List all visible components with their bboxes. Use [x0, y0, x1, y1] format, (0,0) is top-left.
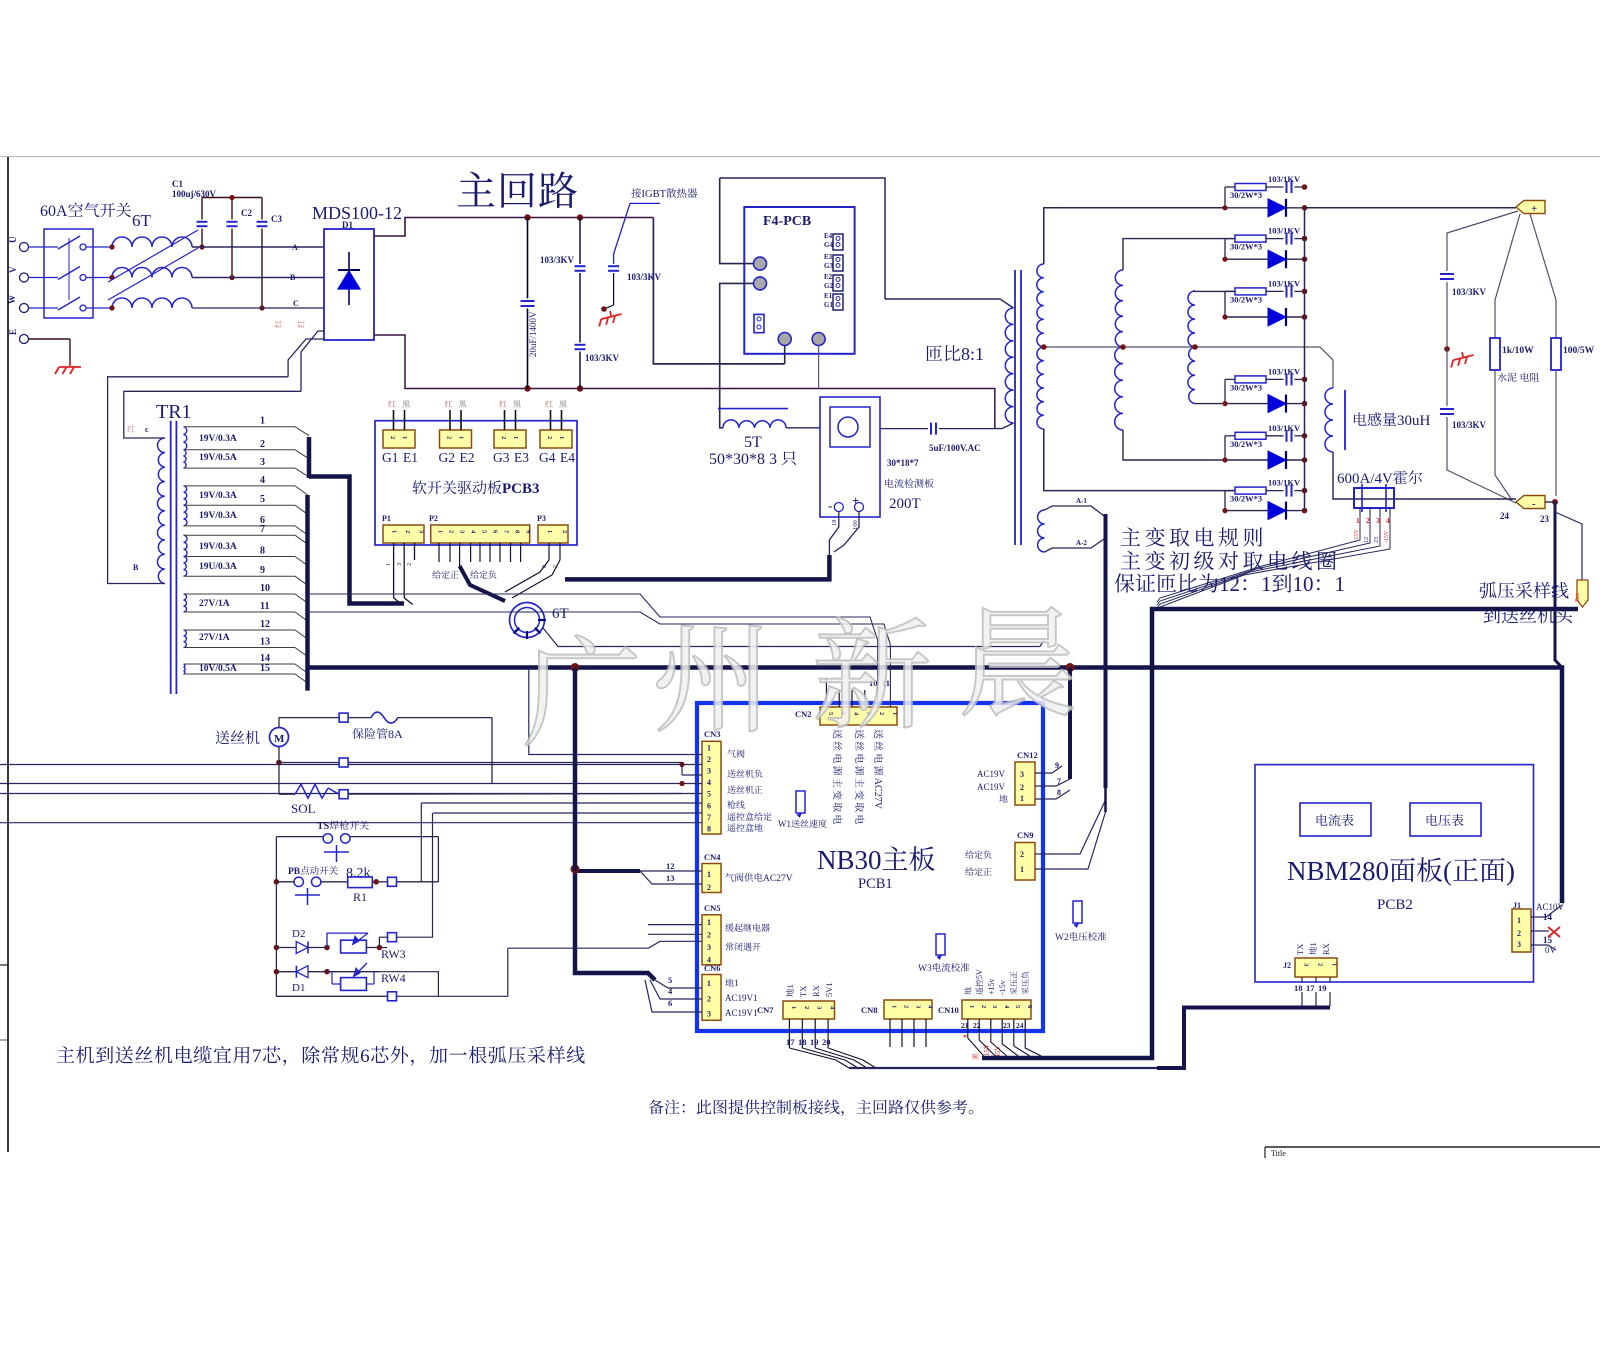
svg-text:27V/1A: 27V/1A — [199, 599, 230, 609]
gate connector G1 E1 — [383, 430, 415, 448]
svg-text:2: 2 — [878, 712, 885, 715]
svg-text:2: 2 — [1366, 516, 1370, 525]
breaker pole V — [29, 277, 59, 279]
P3 pin leads — [548, 543, 550, 560]
svg-text:19U/0.3A: 19U/0.3A — [199, 562, 237, 572]
svg-text:RX: RX — [811, 985, 821, 997]
svg-text:103/1KV: 103/1KV — [1268, 226, 1301, 236]
rectifier diode — [1225, 459, 1305, 461]
svg-text:103/3KV: 103/3KV — [627, 272, 662, 282]
snubber ground — [596, 308, 623, 326]
svg-text:1: 1 — [1020, 794, 1024, 803]
svg-text:+: + — [1531, 203, 1537, 215]
svg-text:5: 5 — [260, 494, 265, 505]
svg-text:2: 2 — [707, 883, 711, 892]
svg-text:6: 6 — [668, 998, 672, 1008]
svg-text:3: 3 — [707, 767, 711, 776]
svg-text:D1: D1 — [292, 982, 305, 994]
svg-text:1k/10W: 1k/10W — [1502, 346, 1534, 356]
svg-text:2: 2 — [1517, 929, 1521, 938]
svg-text:5: 5 — [668, 975, 672, 985]
TR1 primary feed wire 1 — [301, 331, 324, 391]
svg-text:U: U — [8, 236, 18, 243]
svg-text:100/5W: 100/5W — [1563, 346, 1595, 356]
svg-text:2: 2 — [707, 930, 711, 939]
svg-text:2: 2 — [707, 994, 711, 1003]
label 60A空气开关 — [40, 202, 131, 220]
svg-text:10: 10 — [1293, 572, 1314, 596]
svg-text:MDS100-12: MDS100-12 — [312, 203, 402, 223]
snubber capacitor 103/1KV — [1286, 233, 1288, 245]
label 6T toroid — [552, 606, 569, 622]
svg-text:Ret: Ret — [1574, 593, 1581, 602]
connector J1 — [1513, 901, 1521, 910]
wire winding A top to rectifier row1 — [1044, 208, 1225, 264]
snubber stub — [1224, 239, 1226, 260]
svg-text:F4-PCB: F4-PCB — [763, 214, 811, 229]
fan wire to filter caps — [1447, 211, 1518, 271]
CN3 wires — [529, 668, 702, 755]
F4 pin pair E2 G2 — [824, 273, 833, 281]
terminal V — [20, 273, 29, 282]
CN3 pin labels — [727, 749, 744, 757]
connector CN2 — [795, 709, 812, 719]
hall signal bundle — [1157, 517, 1360, 602]
label 电流检测板 — [885, 479, 933, 488]
connector P1 — [382, 514, 391, 523]
svg-text:M: M — [274, 733, 285, 745]
potentiometer W1 — [796, 791, 805, 813]
CN7 rotated labels — [785, 984, 795, 996]
connector CN7 — [757, 1005, 774, 1015]
svg-text:E: E — [8, 329, 18, 335]
junction dot CN4/CN6 feed — [571, 865, 580, 874]
snubber inductor 5T — [718, 408, 788, 410]
svg-text:19V/0.3A: 19V/0.3A — [199, 434, 237, 444]
breaker QF box — [44, 229, 93, 318]
wire winding B bottom to row5 — [1123, 430, 1225, 460]
svg-text:PCB1: PCB1 — [858, 876, 893, 892]
svg-text:7: 7 — [707, 813, 711, 822]
label SOL — [291, 801, 316, 816]
svg-text:13: 13 — [260, 637, 270, 648]
svg-text:15: 15 — [260, 663, 270, 674]
svg-text:11: 11 — [260, 601, 269, 612]
label 保险管8A — [352, 727, 403, 741]
svg-text:1: 1 — [512, 436, 519, 439]
svg-text:-: - — [828, 498, 832, 513]
secondary winding B — [1115, 270, 1123, 347]
TR1 primary feed wire 2 — [288, 339, 324, 377]
pickup winding A-1/A-2 — [1038, 510, 1045, 552]
CN10 rotated net labels — [964, 987, 971, 994]
CN5 pin labels — [725, 923, 769, 931]
potentiometer RW3 — [324, 945, 330, 951]
svg-text:CN7: CN7 — [757, 1005, 774, 1015]
svg-text:1: 1 — [546, 530, 553, 533]
J2 rotated labels — [1295, 944, 1305, 955]
rectifier diode — [1225, 207, 1305, 209]
svg-text:3: 3 — [1376, 516, 1380, 525]
wire W row to bridge C — [192, 307, 324, 309]
svg-text:C2: C2 — [241, 208, 252, 218]
NB30 board box — [697, 703, 1043, 1031]
svg-text:19V/0.3A: 19V/0.3A — [199, 511, 237, 521]
TR1 core — [170, 421, 172, 694]
svg-text:W2: W2 — [1055, 933, 1069, 943]
secondary winding A — [1037, 264, 1044, 347]
snubber capacitor 103/1KV — [1286, 485, 1288, 497]
svg-text:8.2k: 8.2k — [346, 866, 371, 881]
svg-text:IGBT: IGBT — [642, 189, 667, 200]
label W1送丝速度 — [778, 819, 827, 829]
hall sensor 600A/4V — [1337, 470, 1422, 487]
svg-text:8: 8 — [707, 825, 711, 834]
label 30*18*7 — [887, 458, 919, 468]
svg-text:(: ( — [1443, 856, 1452, 886]
svg-text:19V/0.3A: 19V/0.3A — [199, 491, 237, 501]
svg-text:NBM280: NBM280 — [1287, 856, 1389, 886]
potentiometer W2 — [1073, 901, 1082, 923]
thick wire 200T down to mid bus — [565, 555, 829, 579]
label 给定正 — [432, 570, 458, 578]
svg-text:E4: E4 — [560, 450, 575, 465]
svg-text:6T: 6T — [552, 606, 569, 622]
capacitor 5uF/100V.AC — [880, 428, 928, 430]
note 备注 — [649, 1100, 974, 1117]
svg-text:E4: E4 — [824, 232, 833, 240]
svg-text:19: 19 — [810, 1037, 819, 1047]
label F4-PCB — [763, 214, 811, 229]
cap top common wire — [202, 197, 262, 199]
label W2电压校准 — [1055, 932, 1106, 943]
svg-text:P3: P3 — [537, 514, 546, 523]
svg-text:6: 6 — [707, 801, 711, 810]
svg-text:18: 18 — [1294, 983, 1303, 993]
CN10 numbers and labels — [961, 1021, 969, 1030]
bus dot A — [571, 663, 580, 672]
snubber capacitor 103/1KV — [1286, 285, 1288, 297]
snubber stub — [1224, 291, 1226, 317]
positive terminal tag — [1516, 201, 1545, 214]
svg-text:W1: W1 — [778, 819, 791, 829]
svg-text:C3: C3 — [271, 214, 282, 224]
current sensor 200T box — [820, 397, 880, 517]
svg-text:9: 9 — [260, 565, 265, 576]
svg-text:13: 13 — [666, 873, 675, 883]
svg-text:G4: G4 — [824, 241, 833, 249]
TR1 primary winding — [157, 438, 164, 584]
svg-text:AC19V1: AC19V1 — [725, 1008, 758, 1018]
CN10 pin leads — [967, 1019, 969, 1032]
wire RW3 to CN3 — [379, 937, 387, 947]
svg-text:B: B — [290, 273, 296, 282]
CN12 wires 9 7 8 — [1035, 766, 1062, 773]
svg-text:G1: G1 — [824, 301, 833, 309]
svg-text:17: 17 — [1306, 983, 1315, 993]
svg-text:E1: E1 — [403, 450, 418, 465]
svg-text:G3: G3 — [824, 262, 833, 270]
svg-text:30*18*7: 30*18*7 — [887, 458, 919, 468]
diode D2 — [292, 928, 305, 940]
svg-text:+: + — [852, 493, 859, 508]
label 接IGBT散热器 — [631, 188, 697, 200]
red wire labels 红红 at bridge input — [274, 320, 281, 327]
label PCB2 — [1377, 897, 1413, 913]
svg-text:5T: 5T — [744, 434, 762, 451]
capacitor 20uF/1400V — [521, 300, 535, 302]
bus junction dots — [524, 214, 530, 220]
page left border — [7, 157, 9, 1152]
snubber resistor 30/2W*3 — [1225, 186, 1235, 188]
thick wire P2 to 6T toroid — [460, 566, 505, 601]
svg-text:W: W — [7, 295, 17, 304]
svg-text:5uF/100V.AC: 5uF/100V.AC — [929, 443, 981, 453]
J2 pin leads — [1301, 977, 1303, 982]
label 23 — [1540, 514, 1550, 524]
200T plus terminal — [852, 493, 859, 508]
svg-text:B: B — [133, 563, 139, 572]
label NB30主板 — [817, 845, 935, 875]
label C1 100uj/630V — [172, 179, 183, 189]
svg-text:A-2: A-2 — [1076, 539, 1087, 547]
rectifier diode — [1225, 403, 1305, 405]
F4 pin pair E4 G4 — [824, 232, 833, 240]
thick wire CN4 feed — [575, 869, 640, 873]
svg-text:1: 1 — [390, 530, 397, 533]
labels 17 18 19 20 — [786, 1037, 795, 1047]
svg-text:12: 12 — [666, 861, 675, 871]
svg-text:G2: G2 — [824, 282, 833, 290]
label 保证匝比为12：1到10：1 — [1115, 572, 1345, 596]
label PB点动开关 — [288, 866, 338, 877]
svg-text:2: 2 — [404, 530, 411, 533]
svg-text:30/2W*3: 30/2W*3 — [1230, 190, 1262, 200]
svg-text:19V/0.5A: 19V/0.5A — [199, 453, 237, 463]
svg-text:E2: E2 — [460, 450, 475, 465]
svg-text:-15V: -15V — [1384, 530, 1390, 543]
capacitor 103/3KV heatsink — [608, 265, 619, 267]
svg-text:5V: 5V — [975, 969, 984, 979]
gate connector G3 E3 — [494, 430, 526, 448]
svg-text:1: 1 — [891, 1005, 898, 1008]
wire 6T to CN2 — [543, 628, 1044, 647]
CN5 wire from switch block — [508, 941, 702, 948]
svg-text:23: 23 — [1374, 537, 1380, 543]
CN12 pin labels — [977, 769, 1006, 779]
svg-text:AC19V: AC19V — [977, 769, 1006, 779]
svg-text:103/3KV: 103/3KV — [1452, 420, 1487, 430]
TS switch branch — [276, 836, 323, 838]
label 弧压采样线 — [1479, 582, 1568, 599]
snubber stub — [1224, 187, 1226, 208]
wire top bus to IGBT collector — [653, 218, 784, 364]
label 主变初级对取电线圈 — [1121, 551, 1336, 571]
CN3 elbow dots — [679, 762, 684, 767]
gate connector G4 E4 — [540, 430, 572, 448]
F4 pin pair E3 G3 — [824, 253, 833, 261]
centre tap dots — [1041, 344, 1047, 350]
label 24 — [1500, 511, 1510, 521]
svg-text:1: 1 — [1331, 963, 1338, 966]
svg-text:AC27V: AC27V — [872, 778, 883, 810]
svg-text:1: 1 — [707, 743, 711, 752]
ground at E — [55, 361, 81, 374]
snubber stub — [1224, 491, 1226, 511]
thick wire bus to CN12 — [1068, 668, 1072, 780]
PCB2 board box — [1255, 765, 1534, 982]
breaker linkage — [68, 238, 70, 300]
svg-text:12: 12 — [1364, 537, 1370, 543]
label 6T line choke — [132, 211, 152, 230]
svg-text:7: 7 — [260, 524, 265, 535]
CN7 pin leads — [788, 1019, 790, 1048]
svg-text:c: c — [145, 425, 149, 434]
label TS焊枪开关 — [317, 821, 369, 832]
snubber capacitor 103/1KV — [1286, 430, 1288, 442]
svg-text:30/2W*3: 30/2W*3 — [1230, 439, 1262, 449]
cathode bus — [1304, 208, 1306, 511]
svg-text:V: V — [8, 266, 18, 273]
TR1 tap bus upper — [307, 437, 312, 478]
rectifier D1 label — [342, 220, 353, 230]
centre tap line — [1044, 347, 1333, 388]
note 主机到送丝机电缆 — [57, 1046, 585, 1067]
svg-text:2: 2 — [803, 1006, 810, 1009]
wire primary top to F4 — [720, 178, 885, 299]
svg-text:1: 1 — [437, 530, 444, 533]
svg-text:1: 1 — [968, 1005, 975, 1008]
wire E terminal to ground — [29, 338, 71, 340]
svg-text:P2: P2 — [429, 514, 438, 523]
svg-text:6T: 6T — [132, 211, 152, 230]
CN2 rotated net labels — [833, 729, 842, 824]
positive output line — [1305, 207, 1517, 209]
svg-text:R1: R1 — [353, 890, 367, 904]
P1 pin leads — [393, 543, 395, 598]
wire RW4 branch down — [379, 972, 438, 997]
wire winding B top to row2 — [1123, 239, 1235, 270]
choke coil V — [112, 268, 192, 278]
svg-text:24: 24 — [1016, 1021, 1024, 1030]
fuse 保险管8A — [371, 712, 398, 723]
thick wire taps to P1 — [309, 477, 404, 604]
svg-text:103/3KV: 103/3KV — [1452, 287, 1487, 297]
label 5T — [744, 434, 762, 451]
PCB3 board box — [375, 421, 577, 545]
breaker pole W — [29, 307, 59, 309]
wire V row to bridge B — [192, 277, 324, 279]
label 给定负 — [470, 570, 496, 578]
CN8 pin leads — [889, 1019, 891, 1047]
F4-PCB board box — [744, 207, 854, 354]
svg-text:RW3: RW3 — [381, 947, 406, 961]
wire winding C bottom to row4 — [1195, 403, 1225, 405]
connector P2 — [429, 514, 438, 523]
P2 pin leads — [438, 543, 440, 562]
terminal U — [20, 243, 29, 252]
svg-text:C1: C1 — [172, 179, 183, 189]
svg-text:1: 1 — [558, 436, 565, 439]
200T output to thick bus — [829, 512, 838, 556]
connector CN9 — [1017, 830, 1034, 840]
svg-text:1: 1 — [1356, 516, 1360, 525]
svg-text:TS: TS — [317, 821, 330, 832]
svg-text:103/1KV: 103/1KV — [1268, 278, 1301, 288]
svg-text:AC27V: AC27V — [763, 874, 793, 884]
svg-text:3: 3 — [707, 943, 711, 952]
top DC bus — [374, 218, 653, 237]
label 送丝机 — [216, 730, 260, 744]
fuse wire to CN3 — [491, 718, 493, 784]
svg-text:30/2W*3: 30/2W*3 — [1230, 382, 1262, 392]
svg-text:2: 2 — [446, 436, 453, 439]
svg-text:J2: J2 — [1283, 961, 1291, 970]
svg-text:600A/4V: 600A/4V — [1337, 471, 1393, 487]
svg-text:2: 2 — [260, 439, 265, 450]
connector P3 — [537, 514, 546, 523]
svg-text:): ) — [1506, 856, 1515, 886]
label 50*30*8 3只 — [709, 451, 796, 468]
toroid 6T — [510, 603, 545, 638]
CN2 pin leads — [825, 690, 827, 707]
svg-text:18: 18 — [798, 1037, 807, 1047]
svg-text:D2: D2 — [292, 928, 305, 940]
svg-text:103/1KV: 103/1KV — [1268, 478, 1301, 488]
wire F4 gate2 to 5T — [720, 283, 754, 427]
svg-text:AC19V: AC19V — [977, 782, 1006, 792]
choke coil W — [112, 298, 192, 308]
svg-text:1: 1 — [734, 978, 739, 988]
svg-text:12: 12 — [1219, 572, 1240, 596]
F4 aux 2pin connector — [754, 314, 764, 332]
snubber resistor 30/2W*3 — [1225, 378, 1235, 380]
svg-text:2: 2 — [1317, 963, 1324, 966]
svg-text:6: 6 — [360, 1046, 370, 1067]
J2 numbers 18 17 19 — [1294, 983, 1303, 993]
negative terminal tag — [1516, 496, 1545, 509]
svg-text:3: 3 — [396, 563, 403, 566]
title block line — [1265, 1146, 1600, 1148]
motor mid wire — [276, 760, 282, 766]
potentiometer RW4 — [324, 969, 330, 975]
thick panel comm wire — [1157, 1008, 1330, 1069]
snubber resistor 30/2W*3 — [1225, 238, 1235, 240]
CN9 pin labels — [965, 850, 991, 858]
svg-text:CN3: CN3 — [704, 729, 721, 739]
svg-text:2: 2 — [707, 755, 711, 764]
svg-text:4: 4 — [707, 778, 711, 787]
svg-text:60A: 60A — [40, 203, 68, 220]
svg-text:1: 1 — [1517, 916, 1521, 925]
200T minus terminal — [828, 498, 832, 513]
label 软开关驱动板 PCB3 — [413, 480, 540, 497]
svg-text:2: 2 — [903, 1005, 910, 1008]
resistor R1 8.2k — [346, 866, 371, 881]
connector CN12 — [1017, 750, 1038, 760]
wire 11 to CN2 — [308, 612, 891, 707]
svg-text:Title: Title — [1271, 1149, 1286, 1158]
J1 labels — [1536, 902, 1565, 912]
bleeder resistor 100/5W — [1530, 214, 1556, 338]
svg-text:TX: TX — [798, 986, 808, 997]
connector CN6 — [704, 963, 721, 973]
svg-text:1: 1 — [707, 918, 711, 927]
F4 power post C — [778, 333, 791, 346]
wire 10 to CN2 — [308, 594, 878, 707]
svg-text:E3: E3 — [514, 450, 529, 465]
svg-text:103/1KV: 103/1KV — [1268, 174, 1301, 184]
